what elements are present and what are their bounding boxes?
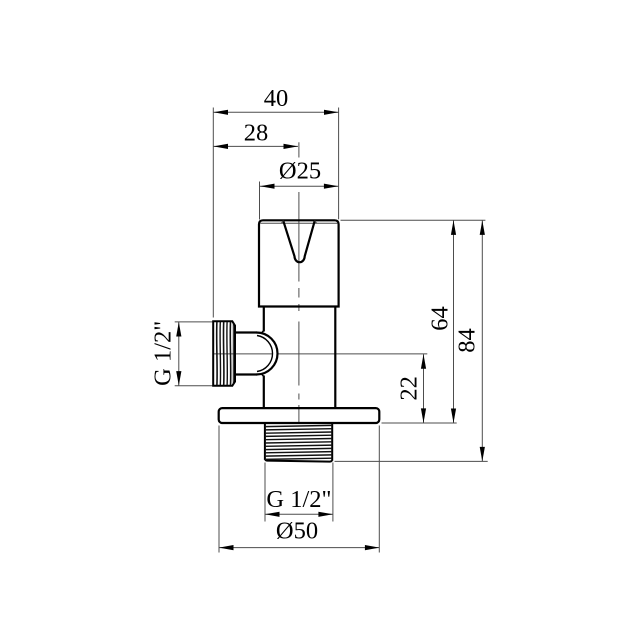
vertical centerline axis tick above knob [298, 142, 300, 157]
dim 84 top arrow [480, 220, 485, 235]
bottom thread line 3 [265, 432, 332, 433]
dim G1/2 bottom right arrow [318, 512, 333, 517]
svg-text:40: 40 [264, 85, 289, 112]
side port thread line 6 [232, 324, 234, 384]
flange rounded rectangle [219, 408, 380, 423]
dim 22 bottom arrow [421, 408, 426, 423]
dimension line G1/2 side port [178, 322, 180, 386]
side port thread line 4 [226, 322, 228, 385]
dim 64 bottom arrow [451, 409, 456, 424]
svg-text:Ø25: Ø25 [279, 158, 321, 185]
bottom thread line 5 [265, 439, 332, 440]
bottom thread line 8 [265, 448, 332, 449]
knob V notch corner chamfer left [281, 221, 283, 224]
valve body right edge [334, 307, 336, 409]
side port dome inner arc [257, 336, 273, 372]
extension line bottom thread left (x=265) [264, 463, 266, 522]
extension line G1/2 left bottom (y=385.7) [175, 385, 213, 387]
bottom thread line 6 [265, 442, 332, 443]
bottom thread line 4 [265, 435, 332, 436]
bottom thread line 9 [265, 452, 332, 453]
dim Ø50 left arrow [219, 545, 234, 550]
extension line thread bottom right (y=461.4) for dim 84 [335, 460, 488, 462]
body-to-dome joint upper [261, 331, 263, 334]
extension line flange bottom right (y=423) for dims 22/64 [382, 422, 457, 424]
svg-text:G 1/2": G 1/2" [266, 486, 331, 513]
svg-text:Ø50: Ø50 [276, 518, 318, 545]
side port dome outer arc [257, 333, 278, 375]
bottom thread line 1 [265, 425, 332, 426]
extension line right (x=338.6) for dims 40/Ø25 [338, 108, 340, 220]
bottom thread line 11 [265, 458, 332, 459]
svg-text:84: 84 [454, 328, 481, 353]
extension line Ø50 right (x=379.3) [378, 426, 380, 553]
svg-text:G 1/2": G 1/2" [150, 321, 177, 386]
dim G1/2 side top arrow [176, 322, 181, 337]
svg-text:64: 64 [426, 306, 453, 331]
dim 64 top arrow [451, 220, 456, 235]
knob V notch [283, 221, 315, 263]
body-to-dome joint lower [261, 374, 263, 377]
dim 28 left arrow [214, 144, 229, 149]
dim 22 top arrow [421, 354, 426, 369]
valve body left edge upper [263, 307, 265, 332]
bottom thread bottom edge [265, 460, 332, 462]
dim 40 right arrow [324, 110, 339, 115]
valve knob outline [259, 220, 339, 306]
knob chamfer thin line [260, 222, 337, 224]
extension line left (x=213) for dims 40/28 [212, 108, 214, 318]
svg-text:22: 22 [395, 376, 422, 401]
dim 84 bottom arrow [480, 447, 485, 462]
dim Ø50 right arrow [365, 545, 380, 550]
svg-text:28: 28 [244, 120, 269, 147]
bottom thread line 7 [265, 445, 332, 446]
side port thread line 3 [222, 322, 224, 385]
bottom thread line 2 [265, 429, 332, 430]
bottom thread left edge [264, 424, 266, 460]
dim Ø25 right arrow [324, 184, 339, 189]
dimension line G1/2 bottom [265, 513, 333, 515]
dim Ø25 left arrow [260, 184, 275, 189]
dimension line 28 [214, 145, 299, 147]
dimension line Ø25 [260, 185, 338, 187]
vertical centerline axis (dash-dot segments) [298, 192, 300, 423]
dimension line Ø50 [219, 547, 379, 549]
extension line bottom thread right (x=332.9) [332, 463, 334, 522]
dim G1/2 bottom left arrow [265, 512, 280, 517]
side port neck top line [235, 331, 257, 333]
dim 40 left arrow [214, 110, 229, 115]
bottom thread right edge [331, 424, 333, 461]
dimension line 40 [214, 111, 339, 113]
dimension line 22 [423, 354, 425, 423]
extension line top right (y=220.3) for dims 64/84 [341, 219, 486, 221]
extension line (x=259.5) for dim Ø25 left [259, 182, 261, 220]
knob V notch corner chamfer right [315, 221, 317, 224]
side port neck bottom line [235, 373, 257, 375]
extension line G1/2 left top (y=321.9) [175, 321, 213, 323]
dim G1/2 side bottom arrow [176, 371, 181, 386]
side port thread line 5 [229, 322, 231, 385]
dim 28 right arrow [284, 144, 299, 149]
bottom thread line 10 [265, 455, 332, 456]
dimension line 84 [481, 220, 483, 461]
horizontal side-port centerline (dash-dot segments) [214, 353, 428, 355]
side port thread line 1 [216, 322, 218, 385]
valve body left edge lower [263, 376, 265, 409]
side port thread line 2 [219, 322, 221, 385]
side port thread block outline [213, 321, 235, 386]
dimension line 64 [453, 220, 455, 423]
extension line Ø50 left (x=219) [218, 426, 220, 553]
